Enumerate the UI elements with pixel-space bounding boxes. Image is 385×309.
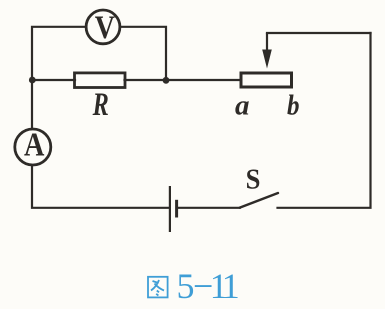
rheostat box a-b bbox=[241, 73, 292, 87]
rheostat wiper arrowhead bbox=[262, 50, 272, 69]
svg-text:5−11: 5−11 bbox=[177, 266, 240, 306]
wire: battery negative plate to switch left contact bbox=[177, 207, 240, 209]
caption: character 图 drawn as strokes bbox=[148, 277, 168, 298]
wire: left rail from ammeter down to bottom-left corner bbox=[32, 166, 169, 208]
wire: left junction to resistor left lead bbox=[32, 79, 75, 81]
svg-text:V: V bbox=[95, 10, 116, 46]
wire: resistor right lead through right junction to rheostat bbox=[125, 79, 242, 81]
node: junction dot right (voltmeter branch/main wire) bbox=[163, 77, 170, 84]
rheostat wiper arrow stem bbox=[266, 33, 268, 51]
battery cell: short plate (negative) bbox=[175, 200, 178, 218]
wire: left rail from junction down to ammeter bbox=[31, 80, 33, 130]
wire: switch right contact to bottom-right corner and right rail up bbox=[278, 33, 371, 208]
wire: voltmeter right to top-right corner of V branch bbox=[121, 27, 167, 80]
svg-text:R: R bbox=[92, 87, 109, 123]
svg-text:S: S bbox=[246, 165, 261, 196]
ammeter A1 bbox=[15, 126, 51, 165]
switch S blade bbox=[240, 193, 278, 208]
battery cell: long plate (positive) bbox=[169, 186, 171, 232]
node: junction dot left (ammeter/voltmeter branch) bbox=[29, 77, 36, 84]
wire: top-right rail to rheostat wiper stem bbox=[267, 32, 371, 34]
svg-text:a: a bbox=[235, 89, 250, 121]
resistor R1 box bbox=[75, 73, 126, 88]
voltmeter V1 bbox=[86, 10, 120, 46]
svg-text:A: A bbox=[24, 126, 44, 163]
svg-text:b: b bbox=[287, 89, 300, 121]
wire: left rail top corner to voltmeter bbox=[32, 27, 86, 80]
